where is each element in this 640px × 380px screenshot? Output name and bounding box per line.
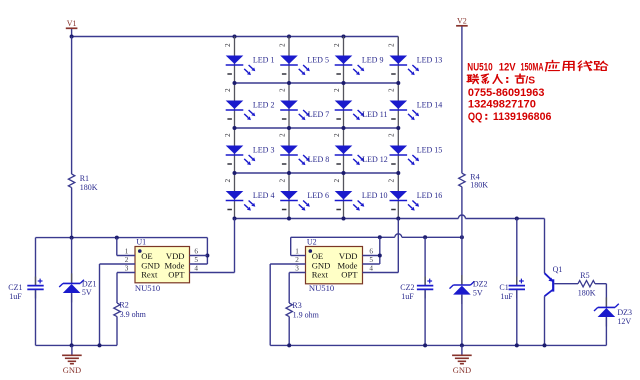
svg-text:LED 5: LED 5 (307, 56, 329, 65)
svg-text:180K: 180K (470, 181, 488, 190)
junction pin2/gnd (98, 343, 102, 347)
svg-text:3.9 ohm: 3.9 ohm (120, 310, 147, 319)
junction row/column (287, 81, 291, 85)
zener diode DZ3 (594, 297, 619, 326)
LED LED 1 (223, 43, 255, 75)
svg-text:4: 4 (194, 265, 198, 273)
svg-text:2: 2 (223, 43, 232, 47)
svg-text:LED 10: LED 10 (362, 191, 388, 200)
wire U1 pin2 (100, 263, 136, 265)
svg-text:LED 3: LED 3 (253, 146, 275, 155)
svg-text:LED 16: LED 16 (417, 191, 443, 200)
IC U1 internal pin names (141, 251, 185, 280)
annotation chinese char xi (481, 74, 488, 83)
junction row/column (342, 171, 346, 175)
wire U2 VDD rail (291, 236, 395, 238)
svg-text:150MA: 150MA (521, 61, 544, 73)
svg-text:6: 6 (369, 248, 373, 256)
svg-text:1139196806: 1139196806 (493, 111, 552, 123)
op-amp/IC U2 NU510 body (306, 247, 363, 284)
svg-text:0755-86091963: 0755-86091963 (468, 87, 545, 99)
capacitor CZ2 (417, 277, 433, 299)
wire DZ1 to gnd rail (71, 293, 73, 345)
svg-text:Rext: Rext (141, 270, 158, 280)
wire LED column 2 vertical (288, 37, 290, 219)
svg-text:13249827170: 13249827170 (468, 98, 536, 110)
wire top rail V1 (72, 36, 399, 38)
annotation red text block (467, 61, 551, 123)
svg-text:5: 5 (194, 256, 198, 264)
svg-text:2: 2 (223, 179, 232, 183)
wire Q1 collector (544, 219, 546, 274)
svg-text:GND: GND (453, 365, 471, 375)
junction pins6-5 tie (378, 235, 382, 239)
svg-text:3: 3 (295, 265, 299, 273)
svg-text:R5: R5 (580, 271, 589, 280)
svg-text:2: 2 (277, 179, 286, 183)
junction row/column (233, 81, 237, 85)
svg-text:2: 2 (125, 256, 129, 264)
wire pin6-5 vertical (379, 237, 381, 264)
svg-text:5V: 5V (82, 288, 92, 297)
svg-text:2: 2 (332, 88, 341, 92)
annotation chinese char yong (563, 61, 574, 70)
wire C1 to gnd (516, 290, 518, 345)
svg-text:LED 12: LED 12 (362, 155, 388, 164)
svg-text:2: 2 (387, 133, 396, 137)
svg-text:4: 4 (369, 265, 373, 273)
power port V2 (456, 25, 468, 27)
svg-text:1: 1 (125, 248, 129, 256)
junction V2 line (460, 235, 464, 239)
svg-text:QQ: QQ (468, 111, 483, 123)
junction row/column (233, 171, 237, 175)
wire to CZ1 (35, 238, 37, 285)
junction row/column (233, 126, 237, 130)
svg-text:Rext: Rext (312, 270, 329, 280)
wire U1 pin6 stub (190, 255, 208, 257)
zener diode DZ2 (450, 275, 475, 304)
junction Q1/gnd (543, 343, 547, 347)
LED LED 9 (332, 43, 364, 75)
wire CZ2 to gnd (424, 290, 426, 345)
junction pin6 (205, 254, 209, 258)
power port V1 (66, 27, 78, 29)
annotation chinese char lu (594, 61, 608, 70)
svg-text:LED 6: LED 6 (307, 191, 329, 200)
svg-text:5: 5 (369, 256, 373, 264)
wire U1 VDD rail (36, 237, 208, 239)
svg-text:GND: GND (63, 365, 81, 375)
LED LED 11 (332, 88, 364, 120)
svg-text:U2: U2 (307, 238, 317, 247)
wire LED row net (235, 172, 399, 174)
svg-text:/S: /S (525, 74, 535, 86)
svg-text:2: 2 (332, 43, 341, 47)
wire V1 stem (71, 29, 73, 37)
svg-text:OPT: OPT (341, 270, 358, 280)
svg-text:DZ2: DZ2 (473, 279, 488, 288)
junction cathode rail (287, 217, 291, 221)
svg-text:V1: V1 (67, 19, 77, 28)
wire down to DZ3 (605, 284, 607, 307)
svg-text:LED 9: LED 9 (362, 56, 384, 65)
svg-text:5V: 5V (473, 289, 483, 298)
svg-text:LED 11: LED 11 (362, 110, 387, 119)
svg-text:LED 1: LED 1 (253, 56, 275, 65)
junction row/column (396, 171, 400, 175)
wire to DZ1 (71, 238, 73, 283)
wire DZ3 to gnd (605, 317, 607, 345)
annotation chinese char gu (515, 74, 524, 83)
wire V1 to R1 (71, 37, 73, 175)
IC U2 pin-1 indicator dot (309, 249, 313, 253)
annotation chinese char lian (467, 75, 478, 84)
junction top rail / LED column (233, 35, 237, 39)
svg-text:NU510: NU510 (309, 283, 334, 293)
LED LED 10 (332, 179, 364, 211)
svg-text:R3: R3 (292, 301, 301, 310)
wire DZ2 to gnd (461, 295, 463, 346)
svg-text:2: 2 (223, 88, 232, 92)
annotation chinese char ying (546, 60, 560, 71)
junction V1/top-rail (70, 35, 74, 39)
svg-text:LED 14: LED 14 (417, 101, 443, 110)
svg-text:2: 2 (332, 133, 341, 137)
wire LED column 3 vertical (343, 37, 345, 219)
wire V2 to R4 (461, 27, 463, 174)
zener diode DZ1 (59, 273, 84, 302)
wire U2 OE drop (290, 237, 292, 255)
junction cathode rail (233, 217, 237, 221)
svg-text:V2: V2 (457, 16, 467, 25)
LED LED 4 (223, 179, 255, 211)
wire left ground rail (36, 344, 118, 346)
svg-text:Q1: Q1 (553, 265, 563, 274)
wire crossover hop (458, 215, 465, 219)
svg-text:12V: 12V (499, 61, 517, 73)
junction top rail / LED column (287, 35, 291, 39)
wire U2 OPT up to matrix (397, 219, 399, 273)
wire pin3 to R3 (288, 273, 290, 304)
svg-text:2: 2 (387, 88, 396, 92)
wire U2 pin5 stub (363, 263, 380, 265)
svg-text:LED 2: LED 2 (253, 101, 275, 110)
svg-text:LED 15: LED 15 (417, 146, 443, 155)
svg-text:2: 2 (387, 43, 396, 47)
wire crossover hop (395, 234, 402, 237)
wire U2 VDD rail right part (402, 236, 462, 238)
LED LED 16 (387, 179, 419, 211)
svg-text:1uF: 1uF (401, 292, 414, 301)
junction DZ2/gnd (460, 343, 464, 347)
wire Q1 emitter (544, 296, 546, 345)
wire R2 to gnd rail (116, 317, 118, 346)
wire U2 pin6 stub (363, 255, 380, 257)
LED LED 12 (332, 133, 364, 165)
svg-text:NU510: NU510 (467, 61, 492, 73)
svg-text:2: 2 (277, 133, 286, 137)
svg-text:LED 4: LED 4 (253, 191, 275, 200)
wire OPT up to matrix (234, 219, 236, 273)
wire right ground rail (270, 344, 606, 346)
LED LED 14 (387, 88, 419, 120)
resistor R5 body (578, 281, 595, 287)
junction R1/DZ1 (70, 236, 74, 240)
junction row/column (287, 126, 291, 130)
junction row/column (396, 126, 400, 130)
annotation fullwidth colon (506, 77, 508, 83)
svg-text:2: 2 (332, 179, 341, 183)
wire U2 pin3 (289, 272, 305, 274)
wire U1 pin4 OPT (190, 272, 235, 274)
junction OE tie (115, 236, 119, 240)
wire U1 pin1 (117, 255, 135, 257)
LED LED 8 (277, 133, 309, 165)
wire LED row net (235, 82, 399, 84)
wire to CZ2 (424, 237, 426, 285)
LED LED 6 (277, 179, 309, 211)
IC U2 internal pin names (312, 251, 359, 280)
svg-text:U1: U1 (136, 238, 146, 247)
resistor R2 body (114, 303, 120, 317)
svg-text:R1: R1 (80, 174, 89, 183)
svg-text:2: 2 (223, 133, 232, 137)
wire U1 pin3 (117, 272, 135, 274)
svg-text:180K: 180K (578, 288, 596, 297)
junction DZ1/gnd (70, 343, 74, 347)
svg-text:1uF: 1uF (500, 292, 513, 301)
junction C1/gnd (515, 343, 519, 347)
LED LED 7 (277, 88, 309, 120)
svg-text:1.9 ohm: 1.9 ohm (293, 310, 320, 319)
wire OE drop (116, 238, 118, 256)
wire V2 line to DZ2 (461, 237, 463, 284)
junction CZ2/gnd (423, 343, 427, 347)
svg-text:DZ3: DZ3 (617, 308, 632, 317)
capacitor C1 (509, 277, 525, 299)
annotation chinese char ren (493, 75, 502, 84)
wire VDD rail down to pins 6-5 (206, 238, 208, 264)
svg-text:2: 2 (277, 88, 286, 92)
wire top rail corner down (397, 37, 399, 56)
svg-text:1uF: 1uF (9, 292, 22, 301)
wire R3 to gnd rail (288, 317, 290, 346)
wire LED matrix cathode rail (235, 218, 459, 220)
LED LED 13 (387, 43, 419, 75)
wire R5 to corner (595, 283, 606, 285)
wire U2 pin4 OPT (363, 272, 399, 274)
junction row/column (287, 171, 291, 175)
svg-text:LED 7: LED 7 (308, 110, 330, 119)
wire cathode rail continues to Q1 (465, 218, 544, 220)
wire LED column 1 vertical (234, 37, 236, 219)
wire U2 pin1 (291, 255, 306, 257)
junction U2 pin6 (378, 254, 382, 258)
svg-text:LED 13: LED 13 (417, 56, 443, 65)
resistor R1 body (68, 174, 74, 188)
ground (62, 345, 82, 363)
resistor R4 body (459, 173, 465, 187)
junction C1 top (515, 217, 519, 221)
svg-text:3: 3 (125, 265, 129, 273)
resistor R3 body (286, 303, 292, 317)
transistor Q1 (545, 219, 554, 297)
svg-text:180K: 180K (80, 183, 98, 192)
junction row/column (342, 126, 346, 130)
svg-text:2: 2 (277, 43, 286, 47)
wire to C1 (516, 219, 518, 286)
junction top rail / LED column (342, 35, 346, 39)
wire U1 pin5 stub (190, 263, 208, 265)
wire Q1 base to R5 (554, 283, 578, 285)
annotation chinese char xian (578, 61, 592, 71)
LED LED 15 (387, 133, 419, 165)
IC U1 pin-1 indicator dot (138, 249, 142, 253)
wire LED row net (235, 127, 399, 129)
wire R1 to VDD rail (71, 188, 73, 238)
wire LED column 4 vertical (397, 37, 399, 219)
junction cathode rail (342, 217, 346, 221)
svg-text:NU510: NU510 (135, 283, 160, 293)
junction CZ2 (423, 235, 427, 239)
op-amp/IC U1 NU510 body (135, 247, 190, 283)
wire CZ1 to gnd rail (35, 290, 37, 345)
junction cathode rail (396, 217, 400, 221)
svg-text:12V: 12V (617, 317, 631, 326)
junction row/column (396, 81, 400, 85)
svg-text:2: 2 (295, 256, 299, 264)
wire pin3 to R2 (116, 273, 118, 304)
LED LED 3 (223, 133, 255, 165)
LED LED 5 (277, 43, 309, 75)
svg-text:2: 2 (387, 179, 396, 183)
wire U2 pin2 (270, 263, 305, 265)
LED LED 2 (223, 88, 255, 120)
ground (452, 345, 472, 363)
svg-text:OPT: OPT (168, 270, 185, 280)
annotation QQ colon (485, 114, 487, 120)
svg-text:6: 6 (194, 248, 198, 256)
svg-text:LED 8: LED 8 (308, 155, 330, 164)
capacitor CZ1 (27, 277, 43, 299)
wire U2 pin2 to gnd (269, 264, 271, 345)
junction R3/gnd (287, 343, 291, 347)
junction row/column (342, 81, 346, 85)
svg-text:1: 1 (295, 248, 299, 256)
svg-text:R2: R2 (119, 301, 128, 310)
wire R4 down V2 line (461, 187, 463, 238)
wire U1 pin2 to gnd (99, 264, 101, 345)
